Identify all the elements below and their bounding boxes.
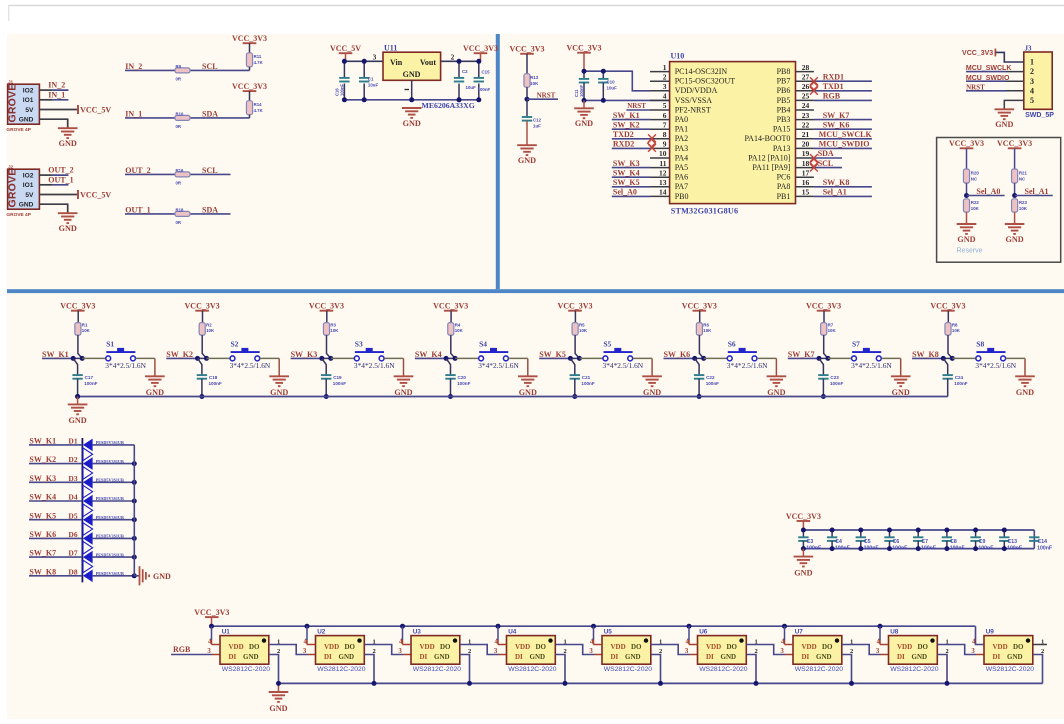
svg-text:WS2812C-2020: WS2812C-2020 xyxy=(699,666,748,673)
svg-text:VSS/VSSA: VSS/VSSA xyxy=(675,96,713,105)
svg-text:SW_K6: SW_K6 xyxy=(823,120,850,129)
svg-text:D4: D4 xyxy=(68,493,77,502)
svg-text:S2: S2 xyxy=(231,339,239,348)
svg-text:WS2812C-2020: WS2812C-2020 xyxy=(890,666,939,673)
svg-text:IN_2: IN_2 xyxy=(48,81,65,90)
svg-text:PESD5V3S1UB: PESD5V3S1UB xyxy=(96,571,124,576)
svg-text:3*4*2.5/1.6N: 3*4*2.5/1.6N xyxy=(230,361,271,370)
svg-text:PESD5V3S1UB: PESD5V3S1UB xyxy=(96,459,124,464)
svg-text:4: 4 xyxy=(972,639,976,646)
svg-text:IO1: IO1 xyxy=(23,182,34,189)
svg-text:GND: GND xyxy=(403,70,421,79)
svg-text:GND: GND xyxy=(816,653,832,661)
svg-text:D3: D3 xyxy=(68,474,77,483)
svg-text:SW_K1: SW_K1 xyxy=(42,350,69,359)
svg-text:GND: GND xyxy=(721,653,737,661)
svg-text:VCC_3V3: VCC_3V3 xyxy=(786,512,821,521)
svg-text:PA12 [PA10]: PA12 [PA10] xyxy=(748,153,791,162)
svg-text:4.7K: 4.7K xyxy=(254,60,264,65)
svg-text:DI: DI xyxy=(324,653,332,661)
svg-text:100nF: 100nF xyxy=(457,381,470,386)
svg-text:R3: R3 xyxy=(330,323,336,328)
svg-text:3: 3 xyxy=(685,648,689,655)
svg-text:100nF: 100nF xyxy=(209,381,222,386)
svg-text:OUT_2: OUT_2 xyxy=(125,166,150,175)
svg-text:3: 3 xyxy=(1030,77,1034,86)
svg-text:7: 7 xyxy=(663,120,667,129)
svg-text:SW_K5: SW_K5 xyxy=(613,178,640,187)
svg-text:100nF: 100nF xyxy=(864,545,879,551)
svg-text:10K: 10K xyxy=(330,328,339,333)
svg-text:100nF: 100nF xyxy=(1037,545,1052,551)
svg-text:VCC_3V3: VCC_3V3 xyxy=(930,302,965,311)
svg-text:GND: GND xyxy=(575,119,593,128)
svg-text:GROVE: GROVE xyxy=(7,169,19,208)
svg-text:MCU_SWCLK: MCU_SWCLK xyxy=(819,130,873,139)
svg-text:GND: GND xyxy=(339,653,355,661)
svg-text:12: 12 xyxy=(659,168,667,177)
svg-text:PB6: PB6 xyxy=(777,86,791,95)
svg-text:3: 3 xyxy=(876,648,880,655)
svg-text:DI: DI xyxy=(515,653,523,661)
svg-text:Sel_A1: Sel_A1 xyxy=(1025,187,1049,196)
svg-text:C9: C9 xyxy=(979,539,986,545)
svg-text:10K: 10K xyxy=(952,328,961,333)
svg-text:R23: R23 xyxy=(1019,200,1028,205)
svg-text:C23: C23 xyxy=(830,375,839,380)
svg-text:GND: GND xyxy=(794,568,812,577)
svg-text:GND: GND xyxy=(269,704,287,713)
svg-text:PA8: PA8 xyxy=(777,182,791,191)
svg-text:11: 11 xyxy=(659,159,666,168)
svg-text:PB7: PB7 xyxy=(777,77,791,86)
svg-text:SW_K2: SW_K2 xyxy=(613,120,640,129)
svg-text:SW_K6: SW_K6 xyxy=(29,530,56,539)
svg-text:SW_K8: SW_K8 xyxy=(823,178,850,187)
svg-text:C7: C7 xyxy=(921,539,928,545)
svg-text:0R: 0R xyxy=(176,124,182,129)
svg-text:C14: C14 xyxy=(1038,539,1048,545)
svg-text:100nF: 100nF xyxy=(706,381,719,386)
svg-text:SW_K6: SW_K6 xyxy=(664,350,691,359)
svg-text:10uF: 10uF xyxy=(607,86,618,91)
svg-text:3*4*2.5/1.6N: 3*4*2.5/1.6N xyxy=(478,361,519,370)
svg-text:PESD5V3S1UB: PESD5V3S1UB xyxy=(96,440,124,445)
svg-text:VDD: VDD xyxy=(802,643,817,651)
svg-text:IN_1: IN_1 xyxy=(125,109,142,118)
svg-text:GROVE 4P: GROVE 4P xyxy=(6,212,31,218)
svg-text:Reserve: Reserve xyxy=(957,247,983,254)
svg-text:19: 19 xyxy=(802,149,810,158)
svg-text:100nF: 100nF xyxy=(806,545,821,551)
svg-text:PA7: PA7 xyxy=(675,182,689,191)
svg-text:R21: R21 xyxy=(1019,170,1028,175)
svg-text:18: 18 xyxy=(802,159,810,168)
svg-text:PESD5V3S1UB: PESD5V3S1UB xyxy=(96,478,124,483)
svg-text:3: 3 xyxy=(398,648,402,655)
svg-text:GND: GND xyxy=(518,156,536,165)
svg-text:C22: C22 xyxy=(706,375,715,380)
svg-text:GND: GND xyxy=(68,416,86,425)
svg-text:DO: DO xyxy=(918,643,929,651)
svg-text:3: 3 xyxy=(589,648,593,655)
svg-text:GND: GND xyxy=(270,388,288,397)
svg-text:RGB: RGB xyxy=(823,92,841,101)
svg-text:5: 5 xyxy=(1030,96,1034,105)
svg-text:NRST: NRST xyxy=(537,91,556,99)
svg-text:SDA: SDA xyxy=(818,149,834,158)
svg-text:3: 3 xyxy=(663,82,667,91)
svg-text:10K: 10K xyxy=(206,328,215,333)
svg-text:R20: R20 xyxy=(971,170,980,175)
svg-text:VCC_3V3: VCC_3V3 xyxy=(185,302,220,311)
svg-text:100nF: 100nF xyxy=(581,381,594,386)
svg-text:IO2: IO2 xyxy=(23,173,34,180)
svg-text:DO: DO xyxy=(822,643,833,651)
svg-text:VCC_3V3: VCC_3V3 xyxy=(232,82,267,91)
svg-text:100nF: 100nF xyxy=(478,87,491,92)
svg-text:D6: D6 xyxy=(68,530,77,539)
svg-text:RXD1: RXD1 xyxy=(823,72,844,81)
svg-text:R13: R13 xyxy=(530,75,539,80)
svg-text:GND: GND xyxy=(394,388,412,397)
svg-text:R9: R9 xyxy=(176,64,182,69)
svg-text:PA1: PA1 xyxy=(675,125,689,134)
svg-text:U9: U9 xyxy=(986,628,995,635)
svg-text:WS2812C-2020: WS2812C-2020 xyxy=(604,666,653,673)
svg-text:GND: GND xyxy=(530,653,546,661)
svg-text:SW_K3: SW_K3 xyxy=(291,350,318,359)
svg-text:D5: D5 xyxy=(68,511,77,520)
svg-text:VCC_3V3: VCC_3V3 xyxy=(463,44,498,53)
svg-text:100nF: 100nF xyxy=(835,545,850,551)
svg-text:SWD_5P: SWD_5P xyxy=(1025,112,1054,119)
svg-text:PB5: PB5 xyxy=(777,96,791,105)
svg-text:PC14-OSC32IN: PC14-OSC32IN xyxy=(675,67,728,76)
svg-text:SW_K1: SW_K1 xyxy=(29,437,56,446)
svg-text:PA2: PA2 xyxy=(675,134,689,143)
svg-text:DI: DI xyxy=(611,653,619,661)
svg-text:NC: NC xyxy=(1019,176,1026,181)
svg-text:VCC_3V3: VCC_3V3 xyxy=(566,44,601,53)
svg-text:3: 3 xyxy=(303,648,307,655)
svg-text:S8: S8 xyxy=(976,339,984,348)
svg-text:R5: R5 xyxy=(579,323,585,328)
svg-text:DI: DI xyxy=(229,653,237,661)
svg-text:C2: C2 xyxy=(462,69,468,74)
svg-text:25: 25 xyxy=(802,92,810,101)
svg-text:10uF: 10uF xyxy=(368,83,379,88)
svg-text:10K: 10K xyxy=(530,81,539,86)
svg-text:IN_1: IN_1 xyxy=(48,90,65,99)
svg-text:C20: C20 xyxy=(458,375,467,380)
svg-text:D1: D1 xyxy=(68,437,77,446)
svg-text:PA5: PA5 xyxy=(675,163,689,172)
svg-text:R1: R1 xyxy=(82,323,88,328)
svg-text:C12: C12 xyxy=(533,118,542,123)
svg-text:R8: R8 xyxy=(952,323,958,328)
svg-text:GND: GND xyxy=(892,388,910,397)
svg-text:100nF: 100nF xyxy=(954,381,967,386)
svg-text:VDD: VDD xyxy=(515,643,530,651)
svg-text:R18: R18 xyxy=(176,207,184,212)
svg-text:PB1: PB1 xyxy=(777,192,791,201)
svg-text:C1: C1 xyxy=(368,77,374,82)
svg-text:VDD: VDD xyxy=(229,643,244,651)
svg-text:5: 5 xyxy=(663,101,667,110)
svg-text:DO: DO xyxy=(631,643,642,651)
svg-text:SCL: SCL xyxy=(202,166,218,175)
svg-text:5V: 5V xyxy=(25,107,34,114)
svg-text:U7: U7 xyxy=(795,628,804,635)
svg-text:STM32G031G8U6: STM32G031G8U6 xyxy=(671,206,739,215)
svg-text:GND: GND xyxy=(1005,235,1023,244)
svg-text:VDD: VDD xyxy=(706,643,721,651)
svg-text:0R: 0R xyxy=(176,77,182,82)
svg-text:5V: 5V xyxy=(25,192,34,199)
svg-text:DO: DO xyxy=(249,643,260,651)
svg-text:GND: GND xyxy=(995,120,1013,129)
svg-text:RXD2: RXD2 xyxy=(613,140,634,149)
svg-text:1: 1 xyxy=(1030,58,1034,67)
svg-text:0R: 0R xyxy=(176,220,182,225)
svg-text:GND: GND xyxy=(912,653,928,661)
svg-text:IO2: IO2 xyxy=(23,88,34,95)
svg-text:GND: GND xyxy=(767,388,785,397)
svg-text:S1: S1 xyxy=(106,339,114,348)
svg-text:10: 10 xyxy=(659,149,667,158)
svg-text:10uF: 10uF xyxy=(466,85,477,90)
svg-text:C8: C8 xyxy=(950,539,957,545)
svg-text:OUT_1: OUT_1 xyxy=(48,175,73,184)
svg-text:DO: DO xyxy=(536,643,547,651)
svg-text:SW_K7: SW_K7 xyxy=(788,350,815,359)
svg-text:14: 14 xyxy=(659,188,667,197)
svg-text:PB3: PB3 xyxy=(777,115,791,124)
svg-text:DI: DI xyxy=(897,653,905,661)
svg-text:GND: GND xyxy=(153,572,171,581)
svg-text:9: 9 xyxy=(663,140,667,149)
svg-text:R11: R11 xyxy=(254,54,262,59)
svg-text:SW_K8: SW_K8 xyxy=(29,567,56,576)
svg-text:DO: DO xyxy=(440,643,451,651)
svg-text:3*4*2.5/1.6N: 3*4*2.5/1.6N xyxy=(603,361,644,370)
svg-text:PESD5V3S1UB: PESD5V3S1UB xyxy=(96,534,124,539)
svg-text:SCL: SCL xyxy=(818,159,834,168)
svg-text:8: 8 xyxy=(663,130,667,139)
svg-text:S3: S3 xyxy=(355,339,363,348)
svg-text:D8: D8 xyxy=(68,567,77,576)
svg-text:10K: 10K xyxy=(971,206,980,211)
svg-text:SW_K5: SW_K5 xyxy=(29,511,56,520)
svg-text:SW_K4: SW_K4 xyxy=(29,493,56,502)
svg-text:GROVE 4P: GROVE 4P xyxy=(6,127,31,133)
svg-text:DI: DI xyxy=(802,653,810,661)
svg-text:GND: GND xyxy=(59,224,77,233)
svg-text:VDD/VDDA: VDD/VDDA xyxy=(675,86,718,95)
svg-text:PC15-OSC32OUT: PC15-OSC32OUT xyxy=(675,77,736,86)
svg-text:WS2812C-2020: WS2812C-2020 xyxy=(986,666,1035,673)
svg-text:DO: DO xyxy=(345,643,356,651)
svg-text:100nF: 100nF xyxy=(978,545,993,551)
svg-text:Sel_A1: Sel_A1 xyxy=(823,188,847,197)
svg-text:VCC_3V3: VCC_3V3 xyxy=(962,50,993,57)
svg-text:PA4: PA4 xyxy=(675,153,689,162)
svg-text:R22: R22 xyxy=(971,200,980,205)
svg-text:28: 28 xyxy=(802,63,810,72)
svg-text:3*4*2.5/1.6N: 3*4*2.5/1.6N xyxy=(354,361,395,370)
svg-text:VCC_3V3: VCC_3V3 xyxy=(194,608,229,617)
svg-text:C13: C13 xyxy=(1008,539,1018,545)
svg-text:R2: R2 xyxy=(206,323,212,328)
svg-text:VCC_3V3: VCC_3V3 xyxy=(682,302,717,311)
svg-text:MCU_SWDIO: MCU_SWDIO xyxy=(819,140,870,149)
svg-text:3*4*2.5/1.6N: 3*4*2.5/1.6N xyxy=(727,361,768,370)
svg-text:DO: DO xyxy=(727,643,738,651)
svg-text:SCL: SCL xyxy=(202,62,218,71)
svg-text:15: 15 xyxy=(802,188,810,197)
svg-text:VCC_3V3: VCC_3V3 xyxy=(433,302,468,311)
svg-text:100nF: 100nF xyxy=(1007,545,1022,551)
svg-text:C19: C19 xyxy=(333,375,342,380)
svg-text:GND: GND xyxy=(19,202,34,209)
svg-text:VCC_3V3: VCC_3V3 xyxy=(60,302,95,311)
svg-text:GND: GND xyxy=(243,653,259,661)
svg-text:C10: C10 xyxy=(607,80,616,85)
svg-text:3*4*2.5/1.6N: 3*4*2.5/1.6N xyxy=(105,361,146,370)
svg-text:GND: GND xyxy=(643,388,661,397)
svg-text:21: 21 xyxy=(802,130,810,139)
svg-text:IO1: IO1 xyxy=(23,97,34,104)
svg-text:3: 3 xyxy=(780,648,784,655)
svg-text:VDD: VDD xyxy=(611,643,626,651)
svg-text:VCC_3V3: VCC_3V3 xyxy=(557,302,592,311)
svg-text:VCC_3V3: VCC_3V3 xyxy=(997,139,1032,148)
svg-text:U6: U6 xyxy=(699,628,708,635)
svg-text:GND: GND xyxy=(59,139,77,148)
svg-text:DI: DI xyxy=(420,653,428,661)
svg-text:VCC_3V3: VCC_3V3 xyxy=(309,302,344,311)
svg-text:PA11 [PA9]: PA11 [PA9] xyxy=(752,163,790,172)
svg-text:DO: DO xyxy=(1013,643,1024,651)
svg-text:GND: GND xyxy=(19,117,34,124)
svg-text:1: 1 xyxy=(663,63,667,72)
svg-text:PB4: PB4 xyxy=(777,105,791,114)
svg-text:PA13: PA13 xyxy=(773,144,791,153)
svg-text:100nF: 100nF xyxy=(830,381,843,386)
svg-text:VDD: VDD xyxy=(420,643,435,651)
svg-text:1uF: 1uF xyxy=(533,124,541,129)
svg-text:PA15: PA15 xyxy=(773,125,791,134)
svg-text:4: 4 xyxy=(1030,86,1034,95)
svg-text:SW_K7: SW_K7 xyxy=(29,549,56,558)
svg-text:100nF: 100nF xyxy=(892,545,907,551)
svg-text:100nF: 100nF xyxy=(579,84,584,97)
svg-text:TXD1: TXD1 xyxy=(823,82,844,91)
svg-text:C17: C17 xyxy=(85,375,94,380)
svg-text:3: 3 xyxy=(373,54,377,62)
svg-text:D7: D7 xyxy=(68,549,77,558)
svg-text:ME6206A33XG: ME6206A33XG xyxy=(422,101,475,110)
svg-text:R6: R6 xyxy=(703,323,709,328)
svg-text:SW_K1: SW_K1 xyxy=(613,111,640,120)
svg-text:GND: GND xyxy=(146,388,164,397)
svg-text:VCC_3V3: VCC_3V3 xyxy=(806,302,841,311)
svg-text:C6: C6 xyxy=(893,539,900,545)
svg-text:S4: S4 xyxy=(479,339,487,348)
svg-text:10K: 10K xyxy=(828,328,837,333)
svg-text:3: 3 xyxy=(207,648,211,655)
svg-text:VCC_5V: VCC_5V xyxy=(80,105,111,114)
svg-text:Vin: Vin xyxy=(390,58,403,67)
svg-text:OUT_1: OUT_1 xyxy=(125,205,150,214)
svg-text:SW_K3: SW_K3 xyxy=(613,159,640,168)
svg-text:2: 2 xyxy=(663,72,667,81)
svg-text:VCC_3V3: VCC_3V3 xyxy=(232,34,267,43)
svg-text:0R: 0R xyxy=(176,181,182,186)
svg-text:U1: U1 xyxy=(222,628,231,635)
svg-text:4: 4 xyxy=(663,92,667,101)
svg-text:PESD5V3S1UB: PESD5V3S1UB xyxy=(96,496,124,501)
svg-text:C24: C24 xyxy=(955,375,964,380)
svg-text:2: 2 xyxy=(451,54,455,62)
svg-text:WS2812C-2020: WS2812C-2020 xyxy=(222,666,271,673)
svg-text:SW_K5: SW_K5 xyxy=(539,350,566,359)
svg-text:S6: S6 xyxy=(728,339,736,348)
svg-text:R7: R7 xyxy=(828,323,834,328)
svg-text:20: 20 xyxy=(802,140,810,149)
svg-text:VCC_3V3: VCC_3V3 xyxy=(509,45,544,54)
svg-text:R4: R4 xyxy=(455,323,461,328)
svg-text:IN_2: IN_2 xyxy=(125,62,142,71)
svg-text:26: 26 xyxy=(802,82,810,91)
svg-text:C21: C21 xyxy=(582,375,591,380)
svg-text:3: 3 xyxy=(494,648,498,655)
svg-text:SW_K8: SW_K8 xyxy=(912,350,939,359)
svg-text:VCC_3V3: VCC_3V3 xyxy=(949,139,984,148)
svg-text:PA3: PA3 xyxy=(675,144,689,153)
svg-text:PESD5V3S1UB: PESD5V3S1UB xyxy=(96,515,124,520)
svg-text:VCC_5V: VCC_5V xyxy=(330,44,361,53)
svg-text:GND: GND xyxy=(403,119,421,128)
svg-text:2: 2 xyxy=(1030,67,1034,76)
svg-text:Vout: Vout xyxy=(420,58,436,67)
svg-text:PA14-BOOT0: PA14-BOOT0 xyxy=(744,134,790,143)
svg-text:PF2-NRST: PF2-NRST xyxy=(675,105,711,114)
svg-text:SW_K7: SW_K7 xyxy=(823,111,850,120)
svg-text:S7: S7 xyxy=(852,339,860,348)
svg-text:10K: 10K xyxy=(579,328,588,333)
svg-text:RGB: RGB xyxy=(173,645,191,654)
svg-text:GROVE: GROVE xyxy=(7,84,19,123)
svg-text:13: 13 xyxy=(659,178,667,187)
svg-text:WS2812C-2020: WS2812C-2020 xyxy=(795,666,844,673)
svg-text:100nF: 100nF xyxy=(339,83,344,96)
svg-text:WS2812C-2020: WS2812C-2020 xyxy=(413,666,462,673)
svg-text:S5: S5 xyxy=(603,339,611,348)
svg-text:17: 17 xyxy=(802,168,810,177)
svg-text:10K: 10K xyxy=(82,328,91,333)
svg-text:U3: U3 xyxy=(413,628,422,635)
svg-text:100nF: 100nF xyxy=(950,545,965,551)
svg-text:SW_K4: SW_K4 xyxy=(613,168,640,177)
svg-text:WS2812C-2020: WS2812C-2020 xyxy=(508,666,557,673)
svg-text:OUT_2: OUT_2 xyxy=(48,166,73,175)
svg-text:GND: GND xyxy=(957,235,975,244)
svg-text:10K: 10K xyxy=(455,328,464,333)
svg-text:PESD5V3S1UB: PESD5V3S1UB xyxy=(96,552,124,557)
svg-text:U5: U5 xyxy=(604,628,613,635)
